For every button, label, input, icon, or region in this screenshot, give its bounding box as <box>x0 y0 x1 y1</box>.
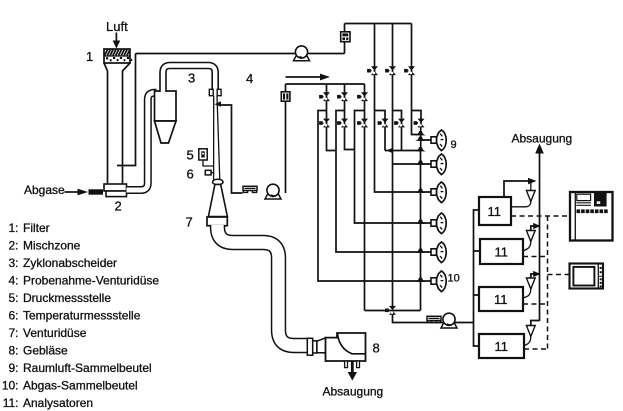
bag B4 <box>431 213 446 234</box>
valve VL2a <box>337 92 348 101</box>
dashed box D to bus <box>524 348 548 350</box>
svg-text:2: 2 <box>115 199 122 214</box>
svg-text:Probenahme-Venturidüse: Probenahme-Venturidüse <box>23 274 159 288</box>
svg-text:Venturidüse: Venturidüse <box>23 326 87 340</box>
wire pump suction line to P1 <box>136 53 345 55</box>
pump P3 analyzers <box>441 313 457 328</box>
junction bag5 <box>415 249 426 253</box>
analyzer box 11 B <box>480 239 523 264</box>
wire bag stubs <box>421 140 432 281</box>
Luft inlet arrow <box>115 33 117 43</box>
inline filter C2 <box>281 92 290 101</box>
wire manifold 1 (room air) <box>345 23 412 25</box>
svg-text:Analysatoren: Analysatoren <box>23 396 93 410</box>
valve VL3a <box>357 92 368 101</box>
wire branch m1 to valve <box>375 111 386 151</box>
svg-text:1:: 1: <box>8 221 18 235</box>
monitor instrument <box>570 264 604 289</box>
wire manifold1 left riser <box>344 24 346 54</box>
wire gauge 5 to pipe <box>203 160 214 166</box>
bag B5 <box>431 242 446 263</box>
inline filter C1 <box>341 32 350 42</box>
wire drop L1 <box>327 84 337 151</box>
mixing zone M2 <box>104 184 127 197</box>
blower 8 <box>326 333 366 361</box>
svg-text:Abgase: Abgase <box>24 183 65 197</box>
wire branch m2 to valve <box>393 111 402 151</box>
funnel T1 <box>526 191 535 202</box>
legend text <box>2 221 160 410</box>
svg-text:3:: 3: <box>8 256 18 270</box>
valve VL1b <box>319 119 330 128</box>
wire drop L2 <box>345 84 355 150</box>
pipe mixer to cyclone <box>127 93 157 190</box>
svg-text:11: 11 <box>495 339 509 354</box>
svg-text:4: 4 <box>246 71 253 86</box>
recorder instrument <box>570 192 613 241</box>
wire drop m3 <box>412 24 420 135</box>
dashed box C to bus <box>523 303 548 305</box>
svg-text:Raumluft-Sammelbeutel: Raumluft-Sammelbeutel <box>23 361 152 375</box>
blower legs <box>345 361 348 368</box>
Abgase inlet arrow <box>65 191 80 193</box>
wire bottom manifold <box>365 310 421 312</box>
label 4 flow arrow <box>286 76 322 78</box>
filter F1 <box>104 49 132 63</box>
svg-text:7:: 7: <box>8 326 18 340</box>
valve V1b <box>378 119 389 128</box>
junction bag1 <box>415 137 426 141</box>
funnel T3 <box>531 274 540 278</box>
funnel T4 <box>531 321 540 326</box>
junction bag3 <box>415 189 426 193</box>
flow meter FM1 <box>243 186 257 192</box>
svg-text:4:: 4: <box>8 274 18 288</box>
wire manifold2 left riser <box>285 84 287 193</box>
svg-text:9: 9 <box>451 139 457 151</box>
svg-text:11:: 11: <box>3 396 19 410</box>
svg-text:8:: 8: <box>8 344 18 358</box>
dilution air tube walls <box>104 63 108 184</box>
pressure tap arrow <box>215 101 222 107</box>
thick duct venturi to blower <box>218 226 309 346</box>
wire drop m2 <box>392 24 394 307</box>
valve V1a <box>367 66 378 75</box>
Absaugung vent line with arrow <box>539 153 541 182</box>
funnel T2 <box>531 226 540 231</box>
junction bag2 <box>415 161 426 165</box>
svg-text:Zyklonabscheider: Zyklonabscheider <box>23 256 117 270</box>
svg-text:Absaugung: Absaugung <box>323 385 384 399</box>
venturi nozzle 7 cone <box>208 184 227 216</box>
bag B1 <box>431 130 446 151</box>
junction bag6 <box>415 278 426 282</box>
main sampling pipe walls <box>213 96 215 181</box>
svg-text:6: 6 <box>187 167 194 182</box>
cyclone separator body <box>155 91 177 121</box>
svg-text:11: 11 <box>494 292 508 307</box>
svg-text:10: 10 <box>448 273 460 285</box>
valve VL2b <box>337 119 348 128</box>
wire drop m1 <box>375 24 421 193</box>
pump P1 room air <box>294 46 310 61</box>
valve V2b <box>394 119 405 128</box>
svg-text:Absaugung: Absaugung <box>512 132 573 146</box>
bag B3 <box>431 182 446 203</box>
flow meter FM2 <box>427 316 441 322</box>
wire drop L3 to bottom manifold <box>364 84 366 311</box>
svg-text:7: 7 <box>186 215 193 230</box>
analyzer box 11 A <box>479 197 511 225</box>
svg-text:Temperaturmessstelle: Temperaturmessstelle <box>23 309 141 323</box>
svg-text:10:: 10: <box>2 379 19 393</box>
svg-text:Abgas-Sammelbeutel: Abgas-Sammelbeutel <box>23 379 138 393</box>
junction bag4 <box>415 220 426 224</box>
svg-text:Gebläse: Gebläse <box>23 344 68 358</box>
sampling venturi fitting 4 <box>209 89 221 95</box>
room-air sample probe pipe <box>117 54 136 166</box>
temperature sensor 6 <box>205 170 214 175</box>
dashed box B to bus <box>523 256 548 258</box>
wire bypass loop3 to bag4 <box>355 111 421 224</box>
valve VL1a <box>319 92 330 101</box>
valve VL3b <box>357 119 368 128</box>
dashed box A to recorder <box>511 215 570 217</box>
pipe cyclone to venturi drop <box>163 66 215 93</box>
dashed signal bus vertical <box>547 216 549 349</box>
flow arrow on fill line <box>387 148 393 153</box>
wire manifold 2 (exhaust sample) <box>286 83 365 85</box>
wire branch m3 to valve <box>412 111 422 128</box>
valve V2a <box>385 66 396 75</box>
wire bypass loop1 to bag6 <box>318 111 421 282</box>
svg-text:8: 8 <box>373 341 380 356</box>
wire valve stem to analyzer pump <box>393 314 474 323</box>
pressure gauge 5 <box>199 149 207 160</box>
wire bypass loop2 to bag5 <box>336 111 421 253</box>
valve V3b <box>414 119 425 128</box>
svg-text:Druckmessstelle: Druckmessstelle <box>23 291 111 305</box>
venturi nozzle 7 flange <box>207 217 227 226</box>
svg-text:11: 11 <box>488 204 502 219</box>
bag B6 <box>431 271 446 292</box>
svg-text:9:: 9: <box>8 361 18 375</box>
venturi nozzle 7 bell <box>213 179 223 185</box>
pump P2 venturi sample <box>265 184 281 199</box>
Abgase inlet nozzle <box>89 189 104 194</box>
svg-text:6:: 6: <box>8 309 18 323</box>
svg-text:1: 1 <box>86 49 93 64</box>
svg-text:2:: 2: <box>8 239 18 253</box>
dashed bus to monitor <box>548 274 570 276</box>
wire bag2 tap <box>393 163 421 165</box>
wire analyzer supply manifold <box>474 210 481 346</box>
svg-text:11: 11 <box>495 245 509 260</box>
wire fill line to bag manifold <box>385 150 421 152</box>
svg-text:3: 3 <box>188 71 195 86</box>
bag B2 <box>431 154 446 175</box>
wire tap to flow meter <box>221 105 243 193</box>
svg-text:5: 5 <box>187 148 194 163</box>
analyzer box 11 D <box>479 334 524 358</box>
wire box A vent <box>504 181 529 197</box>
svg-text:Filter: Filter <box>23 221 50 235</box>
svg-text:Mischzone: Mischzone <box>23 239 81 253</box>
svg-text:5:: 5: <box>8 291 18 305</box>
svg-text:Luft: Luft <box>106 19 128 34</box>
junction m3 join <box>415 131 426 135</box>
wire bag collection manifold <box>420 127 422 311</box>
valve V3a <box>404 66 415 75</box>
valve V bottom <box>385 306 396 315</box>
analyzer box 11 C <box>479 287 523 311</box>
junction fill line <box>415 147 426 151</box>
blower exhaust arrow <box>351 361 354 373</box>
blower inlet reducer <box>307 338 325 355</box>
wire vent main vertical <box>539 181 541 321</box>
